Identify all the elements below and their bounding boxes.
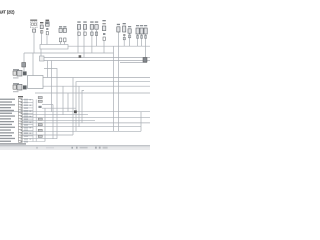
wire vertical x47 down [47,61,49,78]
wire vertical x113 down [113,46,115,131]
wire H5 y60.5 [44,60,150,62]
wire vertical x118 down [118,46,120,131]
wire vertical x68 [67,93,69,112]
wire y135 [22,134,73,136]
connector G6 [144,25,147,38]
wire H3 y52 [24,52,114,54]
terminal strip pin boxes [19,99,23,143]
connector assembly lower left of U1 [13,83,27,92]
connector assembly upper left of U1 [13,69,27,78]
wire vertical G4 [137,34,139,46]
wire L corner y68 [44,69,57,139]
junction dot at x75 y112 [74,110,77,113]
wire vertical x24 to inline fuse [23,53,25,71]
wire y139 [22,138,57,140]
wire H4 y57 [44,57,150,59]
sensor E2 [83,21,86,35]
wire y127 [22,126,141,128]
wire vertical x63 down [62,86,64,115]
terminal strip wires to bus [22,100,45,142]
wire y112 long [0,111,150,113]
stair wire 4 [82,91,84,123]
junction dot J1 [79,55,82,58]
wire vertical E3 [91,30,93,53]
wire vertical C column [46,36,48,45]
wire vertical E4 [96,30,98,46]
connector B [40,25,43,29]
diode block D5 right middle [143,58,147,63]
wire feed to R1 [40,49,42,56]
toolbar [0,145,150,150]
connector D1 [59,26,62,42]
inline connector boxes on table wires [38,96,42,137]
wire y104 [42,104,53,106]
toolbar zoom icons [95,147,97,149]
wire vertical x141 [140,112,142,132]
header mark of terminal strip [18,96,23,97]
wire vertical from relay K1 [33,33,35,53]
wire vertical D1 [60,42,62,45]
connector G2 [123,23,126,40]
sensor E3 [90,21,93,35]
connector G5 [140,25,143,38]
wire bus H1 y46 [68,45,150,47]
wire H6 y62.5 [120,62,147,64]
connector C top [46,20,50,35]
toolbar icon group left [36,147,38,149]
svg-text:IRCUIT (2/2): IRCUIT (2/2) [0,10,15,15]
connector D2 [63,26,66,42]
terminal strip second pin column [24,99,28,143]
fuse F1 [33,29,36,32]
resistor block R1 on wire [40,56,45,61]
wire vertical B column [41,30,43,45]
wire vertical G3 [129,33,131,46]
vertical bus of terminal strip [32,100,34,142]
wire vertical G1 [117,32,119,46]
sensor E1 [77,21,80,35]
pin number marks [21,99,22,142]
switch F column [102,20,105,40]
terminal strip table rows [0,99,45,145]
sensor E4 [95,21,98,35]
junction connector box J/C1 [40,45,68,50]
wire vertical G6 [145,34,147,63]
relay K1 dashed box [30,20,37,28]
stair wire 1 [72,78,74,136]
wire vertical E2 [83,29,85,58]
toolbar page text [76,147,78,149]
control unit box U1 [28,76,44,89]
stair wire 2 [76,82,150,132]
connector B label [40,22,43,23]
connector G4 [136,25,139,38]
connector G3 [128,26,131,38]
wire y123 long [22,122,150,124]
wire vertical D2 [64,42,66,45]
wire vertical main left x33 [32,53,34,76]
wire vertical E1 [77,29,79,53]
stair wire 3 [78,86,80,127]
wire vertical G5 [141,34,143,46]
dark inline component [38,106,41,108]
wire from control box right bottom [43,85,150,87]
wire y131 [22,130,141,132]
wire below box y93 [35,92,150,94]
wire vertical x45 [44,108,46,141]
wire y114.5 [22,114,88,116]
connector G1 [117,24,120,32]
wire from control box right top [43,77,150,79]
wire y118 long [22,117,150,119]
wire y120.5 [22,119,95,121]
inline fuse F2 [22,63,26,68]
wire vertical G2 [123,36,125,46]
wire vertical x53 [52,105,54,139]
wire vertical x51 down [51,61,53,113]
wire y108 [42,107,76,109]
wire vertical F [103,41,105,53]
